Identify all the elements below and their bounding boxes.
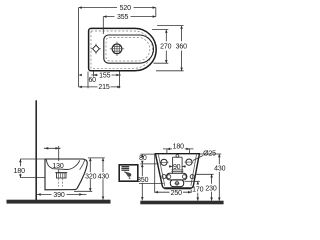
top view outer outline — [89, 28, 157, 70]
svg-text:520: 520 — [120, 5, 131, 12]
dim 270 line — [165, 30, 167, 64]
bidet body outline (side profile) — [45, 159, 87, 190]
dim 130 ext line — [58, 146, 60, 173]
svg-text:180: 180 — [14, 168, 25, 175]
svg-text:360: 360 — [176, 44, 187, 51]
supply dashed lines under faucet box — [58, 179, 62, 187]
small top circle — [176, 155, 179, 158]
rear outline bottom thick edge — [164, 187, 191, 189]
dim 155 line — [91, 74, 121, 76]
dim 355 ext line — [102, 17, 104, 34]
faucet icon glyph head — [121, 167, 129, 171]
dim 155 ext lines — [88, 72, 120, 89]
bidet front inner lip — [80, 160, 85, 170]
svg-text:390: 390 — [53, 192, 64, 199]
dim 180 ext lines — [20, 159, 45, 178]
svg-text:355: 355 — [117, 14, 128, 21]
left dim column line — [141, 154, 143, 200]
floor band right — [140, 201, 223, 205]
dim 430 rear line — [218, 154, 220, 201]
dim 215 line — [79, 86, 121, 88]
dim 130 line — [44, 147, 61, 149]
rear outline outer — [155, 154, 199, 189]
svg-text:430: 430 — [98, 173, 109, 180]
dim 250 ext stubs — [155, 155, 192, 193]
flange circle right — [182, 175, 186, 179]
svg-text:60: 60 — [88, 77, 96, 84]
svg-text:170: 170 — [192, 187, 203, 194]
dim 180 rear ext stubs — [167, 149, 190, 154]
svg-text:130: 130 — [52, 163, 63, 170]
dim 230 line — [211, 174, 213, 200]
dim 230 ext line — [196, 173, 214, 175]
top view bowl outline — [104, 35, 154, 63]
dim 170 ext line — [185, 180, 200, 182]
dim 170 line — [197, 181, 199, 200]
top view bowl inner dashed — [106, 37, 150, 61]
dim 360 line — [181, 26, 183, 71]
left dim column (80/350) ext lines — [139, 154, 164, 184]
svg-text:430: 430 — [214, 166, 225, 173]
dim 430 rear ext line — [200, 153, 222, 155]
dim 520 line — [79, 7, 156, 9]
dim 180 line — [19, 159, 21, 178]
dim 250 line — [155, 191, 192, 193]
upper bolt hole left — [161, 159, 167, 165]
rear outline inner sides — [158, 154, 196, 186]
upper bolt hole right — [186, 159, 192, 165]
dim 320 line — [89, 158, 91, 191]
svg-text:180: 180 — [173, 143, 184, 150]
dim 430 line (side) — [102, 158, 104, 200]
floor band left — [7, 200, 111, 204]
faucet icon box — [119, 165, 138, 181]
dim 355 line — [103, 16, 156, 18]
drain crossbars — [171, 170, 183, 172]
dim 360 ext lines — [156, 26, 184, 71]
drain column — [173, 157, 183, 173]
top view inner dashed outline — [91, 31, 153, 68]
lower corner hole left — [162, 175, 166, 179]
svg-text:215: 215 — [98, 84, 109, 91]
svg-text:320: 320 — [85, 173, 96, 180]
svg-text:90: 90 — [173, 164, 181, 171]
dim 320 bottom ext line — [74, 190, 92, 192]
svg-text:350: 350 — [137, 177, 148, 184]
drain circle — [112, 44, 122, 54]
faucet hole diamond — [93, 45, 100, 52]
dim 180 rear line — [163, 148, 194, 150]
svg-text:270: 270 — [160, 44, 171, 51]
dim 390 line — [37, 193, 87, 195]
dim 270 ext lines — [152, 30, 168, 64]
flange stadium — [166, 173, 187, 180]
dim 520 ext lines — [78, 8, 80, 87]
svg-text:155: 155 — [99, 72, 110, 79]
wall line — [35, 100, 37, 200]
faucet hole section box — [57, 173, 67, 178]
dim 320/430 top ext line — [88, 157, 105, 159]
bidet bowl interior — [46, 160, 80, 170]
leader for diam 25 — [193, 156, 203, 161]
svg-text:80: 80 — [139, 155, 147, 162]
outlet square — [170, 180, 183, 187]
dim 90 line — [169, 165, 186, 167]
svg-text:230: 230 — [205, 185, 216, 192]
lower corner hole right — [190, 175, 194, 179]
svg-text:Ø25: Ø25 — [203, 150, 216, 157]
outlet circle — [175, 182, 178, 185]
flange circle left — [167, 175, 171, 179]
faucet icon glyph tail — [124, 171, 131, 177]
svg-text:250: 250 — [171, 190, 182, 197]
